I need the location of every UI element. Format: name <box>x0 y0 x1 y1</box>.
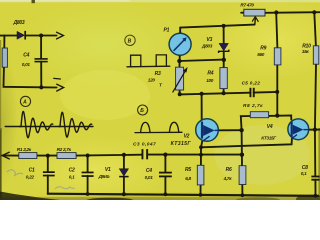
wire: R4 bottom lead <box>223 89 225 94</box>
node: R5 bottom <box>199 193 203 197</box>
svg-text:R9: R9 <box>260 45 266 51</box>
R7 wiper arrowhead <box>252 17 258 22</box>
node: meter bottom / R3 <box>177 59 181 63</box>
wire: arrow to R1 <box>2 155 19 157</box>
node: C2 top <box>86 154 90 158</box>
svg-text:С4: С4 <box>146 168 152 174</box>
watermark pen scribble 1 <box>7 170 23 176</box>
wire: R10 top lead <box>314 12 316 46</box>
svg-text:V4: V4 <box>267 124 273 130</box>
svg-text:560: 560 <box>257 52 265 57</box>
svg-text:КТ315Г: КТ315Г <box>171 141 192 147</box>
svg-text:Д9Иа: Д9Иа <box>98 174 110 179</box>
node: V2 base on rail <box>200 92 204 96</box>
node: C4a bottom junction <box>39 85 43 89</box>
node: R3 bottom rail <box>178 92 182 96</box>
svg-text:0,1: 0,1 <box>301 171 307 176</box>
diode V1 Д9Иа <box>98 167 129 179</box>
svg-text:С1: С1 <box>29 167 35 173</box>
wire: R1 to R2 <box>37 155 57 157</box>
svg-text:С5 0,22: С5 0,22 <box>242 81 261 86</box>
resistor R4 100 <box>206 68 227 89</box>
node: output / R10 / C8 <box>313 128 317 132</box>
capacitor C1 <box>26 167 55 179</box>
waveform A axis <box>5 126 93 128</box>
node label: circled А <box>20 96 30 106</box>
svg-text:6,8: 6,8 <box>185 176 191 181</box>
transistor V2 КТ315Г <box>171 119 219 147</box>
resistor R10 15к <box>302 44 319 65</box>
resistor R1 <box>17 147 37 159</box>
node: V2emitter crossing main wire <box>199 153 203 157</box>
wire: left vertical into resistor <box>3 36 5 49</box>
transistor V4 КТ315Г <box>261 119 308 140</box>
waveform A burst 1 <box>20 112 53 138</box>
arrow right (top-left block) <box>57 32 64 39</box>
wire: horizontal to R7 wiper <box>180 25 254 28</box>
capacitor C2 <box>69 168 94 180</box>
arrow right (bottom of block) <box>57 84 64 91</box>
bottom edge smudges <box>0 197 320 200</box>
wire: V1 vertical <box>123 155 125 169</box>
svg-text:Д803: Д803 <box>13 20 25 26</box>
wire: V2 emitter vertical down to R5 <box>201 141 202 165</box>
wire: meter top to wiper wire <box>179 28 181 34</box>
node: zener bottom / R4 <box>222 58 226 62</box>
waveform B(square) baseline <box>127 65 170 68</box>
node: V2 collector / R8 / R6 <box>239 128 243 132</box>
wire: C4b vertical <box>164 155 166 172</box>
resistor R8 2,7к <box>243 103 269 118</box>
svg-text:4,7к: 4,7к <box>223 176 233 181</box>
node: top rail R10 <box>312 10 316 14</box>
wire: R7 left stub <box>241 12 244 14</box>
diode Д803 (top-left) <box>13 20 26 39</box>
node: C4b top <box>163 153 167 157</box>
svg-text:А: А <box>22 100 27 106</box>
zener V3 Д803 <box>201 37 229 53</box>
top supply rail from R7 to right edge <box>265 11 320 14</box>
node: V1 top <box>122 153 126 157</box>
svg-text:120: 120 <box>148 77 156 82</box>
capacitor C4a plates <box>22 52 48 67</box>
wire: C2 vertical <box>87 156 89 172</box>
left edge dark border <box>0 128 2 200</box>
waveform Б hump 2 <box>169 122 178 132</box>
wire: C3 to V2 emitter node <box>147 154 241 156</box>
bottom ground rail <box>48 194 319 196</box>
svg-text:15к: 15к <box>302 49 310 54</box>
wire: R4 top lead <box>223 60 225 68</box>
wire: zener V3 bottom lead <box>223 51 225 60</box>
wire: R9 bottom line down to R8 wire <box>276 65 278 116</box>
svg-text:Д803: Д803 <box>201 44 213 49</box>
svg-text:R8 2,7к: R8 2,7к <box>243 103 263 109</box>
wire: R8-node vertical up and to R8 <box>241 116 250 130</box>
node: R6 bottom <box>241 193 245 197</box>
wire: bottom junction to arrow <box>41 86 56 88</box>
wire: input top-left at y=35.5 <box>0 35 17 37</box>
wire: V4 collector output to right edge <box>309 129 320 131</box>
wire: R10 bottom to V4 collector node <box>315 64 316 130</box>
resistor R5 <box>185 165 204 185</box>
meter P1 <box>164 27 192 55</box>
node: R5 top emitter node <box>199 145 203 149</box>
node: top rail R9 <box>274 10 278 14</box>
node: meter top wire / zener <box>222 24 226 28</box>
svg-text:0,1: 0,1 <box>69 175 75 180</box>
waveform B pulse 2 <box>156 55 166 67</box>
svg-text:R6: R6 <box>226 167 232 173</box>
capacitor C5 plates <box>242 81 261 98</box>
wire: base rail y93 R3 to C5 <box>180 93 250 95</box>
wire: resistor bottom to corner to bottom junction <box>4 67 42 87</box>
svg-text:R1 2,2к: R1 2,2к <box>17 147 32 152</box>
waveform Б hump 1 <box>141 122 150 132</box>
node: R9 line end on R8 wire <box>275 114 279 118</box>
wire: C8 vertical from output node <box>314 130 316 176</box>
wire: V2 base vertical <box>201 94 203 120</box>
capacitor C8 plates <box>301 165 320 180</box>
svg-text:0,01: 0,01 <box>145 175 154 180</box>
svg-text:V1: V1 <box>105 167 111 173</box>
resistor R2 <box>57 147 77 159</box>
arrow left on R1 wire <box>2 152 9 159</box>
svg-text:0,22: 0,22 <box>26 174 35 179</box>
svg-text:R7 470: R7 470 <box>240 2 254 7</box>
wire: R6-chain vertical (R8node down through emitter link to R6) <box>241 130 243 166</box>
R7 wiper arrow stem <box>254 19 257 25</box>
wire: meter bottom lead <box>179 55 181 61</box>
resistor R9 560 <box>257 45 281 65</box>
svg-text:С2: С2 <box>69 168 75 174</box>
resistor (unlabeled, left edge) <box>2 48 7 67</box>
node: diode/C4a junction top-left <box>39 34 43 38</box>
svg-text:С4: С4 <box>23 52 29 58</box>
svg-text:100: 100 <box>206 78 214 83</box>
node: C5/R9 junction <box>275 90 279 94</box>
top light border band <box>0 0 320 2</box>
svg-text:R2 2,7к: R2 2,7к <box>57 147 72 152</box>
svg-text:V3: V3 <box>206 37 212 43</box>
wire: C5 right to R9 line <box>254 91 278 94</box>
wire: zener V3 top lead <box>223 26 225 44</box>
waveform Б baseline <box>135 131 182 133</box>
wire: R6 bottom lead <box>241 184 243 195</box>
wire: V4 emitter down and long left link <box>201 139 292 148</box>
minus dash above arrow <box>54 77 61 80</box>
node: end of mid wire at R6 vertical <box>240 153 244 157</box>
node label: circled В <box>125 35 135 45</box>
capacitor C4b <box>145 168 172 180</box>
wire: horizontal y61 meter/R3 to zener/R4 <box>179 60 224 61</box>
wire: diode to junction to arrow <box>26 35 56 37</box>
node: C4b bottom <box>164 192 168 196</box>
node: meter bottom blob <box>178 53 182 57</box>
capacitor C3 (series) <box>133 142 156 160</box>
svg-text:V2: V2 <box>184 133 190 139</box>
node: C2 bottom <box>86 192 90 196</box>
wire: R2 to V1 top (through C2, C3 gap) <box>76 154 142 157</box>
svg-text:R5: R5 <box>185 167 191 173</box>
svg-text:R3: R3 <box>155 71 161 77</box>
wire: C1 vertical <box>47 156 49 172</box>
node: C8 bottom <box>314 194 318 198</box>
wire: R9 top lead <box>276 13 277 48</box>
node: C1 top <box>46 154 50 158</box>
potentiometer R7 470 <box>240 2 265 16</box>
node label: circled Б <box>138 105 148 115</box>
wire: capacitor C4a vertical top <box>40 36 42 59</box>
node: V1 bottom <box>122 192 126 196</box>
wire: V2 collector to R8 node <box>218 129 241 131</box>
node: meter top blob <box>178 32 182 36</box>
node: R4 bottom rail <box>222 91 226 95</box>
wire: R3 bottom lead <box>179 90 181 95</box>
wire: R8 right to V4 base <box>269 115 292 119</box>
variable resistor R3 120 <box>148 67 188 92</box>
svg-text:КТ315Г: КТ315Г <box>261 135 277 140</box>
svg-text:0,01: 0,01 <box>22 62 31 67</box>
wire: R3 top lead <box>179 61 181 67</box>
svg-text:С3 0,047: С3 0,047 <box>133 142 156 148</box>
watermark pen scribble 2 <box>55 187 75 189</box>
wire: capacitor C4a vertical bottom <box>40 62 42 88</box>
waveform A burst 2 <box>59 112 92 137</box>
waveform B pulse 1 <box>131 55 141 66</box>
wire: R5 bottom lead <box>200 185 202 195</box>
svg-text:R4: R4 <box>207 71 213 77</box>
resistor R6 <box>223 166 246 185</box>
svg-text:Р1: Р1 <box>164 27 170 33</box>
